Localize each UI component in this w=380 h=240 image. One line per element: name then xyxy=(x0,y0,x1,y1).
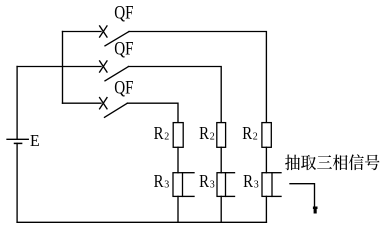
svg-text:R: R xyxy=(154,171,164,191)
svg-text:2: 2 xyxy=(164,131,169,142)
wire: R3 branch 1 bottom tap xyxy=(183,195,195,197)
wire: left bus vertical xyxy=(62,32,64,104)
breaker QF3 contact X xyxy=(100,98,107,109)
svg-text:R: R xyxy=(154,123,164,143)
wire: branch 3 from R3 to bottom rail xyxy=(265,196,267,222)
wire: switch QF3 right lead to branch 1 xyxy=(127,103,178,122)
resistor R3 branch 2 body xyxy=(217,173,226,197)
label char qu "取" xyxy=(301,155,316,170)
resistor R2 branch 3 body xyxy=(262,123,271,148)
breaker QF1 contact X xyxy=(100,26,107,37)
wire: signal take-off line with corner xyxy=(290,184,315,207)
wire: branch 2 between R2 and R3 xyxy=(220,147,222,172)
resistor R2 branch 2 body xyxy=(217,123,226,148)
wire: bottom rail xyxy=(17,221,266,223)
svg-text:3: 3 xyxy=(254,179,259,190)
battery E negative plate (short) xyxy=(15,142,22,144)
svg-text:QF: QF xyxy=(114,3,133,24)
wire: left vertical from QF2 lead down to battery xyxy=(16,67,18,140)
wire: R3 branch 2 bottom tap xyxy=(226,195,235,197)
wire: R3 branch 2 top tap xyxy=(226,172,235,174)
wire: branch 3 between R2 and R3 xyxy=(265,147,267,172)
wire: switch QF2 left lead xyxy=(17,66,101,68)
label char hao "号" xyxy=(365,155,380,171)
label char xin "信" xyxy=(349,154,364,170)
wire: switch QF3 left lead xyxy=(63,102,102,104)
svg-text:R: R xyxy=(242,123,252,143)
wire: left vertical from battery to bottom rail xyxy=(16,143,18,222)
wire: branch 1 between R2 and R3 xyxy=(177,147,179,172)
wire: branch 1 from R3 to bottom rail xyxy=(177,196,179,222)
svg-text:2: 2 xyxy=(253,131,258,142)
wire: branch 2 from R3 to bottom rail xyxy=(220,196,222,222)
label char chou "抽" xyxy=(285,154,300,170)
svg-text:3: 3 xyxy=(210,179,215,190)
svg-text:R: R xyxy=(243,171,253,191)
svg-text:R: R xyxy=(199,171,209,191)
resistor R2 branch 1 body xyxy=(173,123,183,148)
svg-text:E: E xyxy=(30,131,40,150)
battery E positive plate (long) xyxy=(7,138,28,140)
svg-text:2: 2 xyxy=(210,131,215,142)
breaker QF2 contact X xyxy=(100,61,107,72)
resistor R3 branch 1 body xyxy=(173,173,183,197)
breaker QF2 blade xyxy=(105,67,129,81)
svg-text:R: R xyxy=(199,123,209,143)
arrowhead of signal take-off xyxy=(313,207,318,214)
breaker QF3 blade xyxy=(105,103,128,117)
wire: R3 branch 3 top tap xyxy=(272,172,281,174)
wire: R3 branch 1 top tap xyxy=(183,172,195,174)
svg-text:QF: QF xyxy=(114,78,133,99)
wire: switch QF1 right lead to branch 3 xyxy=(129,32,266,123)
breaker QF1 blade xyxy=(105,32,129,46)
resistor R3 branch 3 body xyxy=(262,173,272,197)
label char xiang "相" xyxy=(333,154,348,170)
svg-text:3: 3 xyxy=(164,179,169,190)
svg-text:QF: QF xyxy=(114,38,133,59)
wire: R3 branch 3 bottom tap xyxy=(272,195,281,197)
label char san "三" xyxy=(317,155,332,168)
wire: switch QF1 left lead xyxy=(63,31,102,33)
wire: switch QF2 right lead to branch 2 xyxy=(129,67,222,123)
